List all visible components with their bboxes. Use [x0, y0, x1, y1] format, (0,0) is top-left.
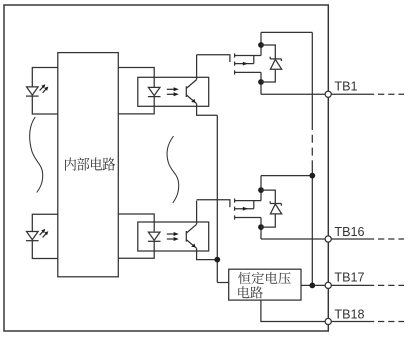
wire loop to input LED 2 — [32, 214, 58, 258]
wire PC2 emitter to common rail — [197, 248, 218, 259]
optocoupler PC2 phototransistor — [186, 224, 196, 248]
wire D2 anode to Q2 source — [261, 214, 275, 227]
terminal TB18 — [325, 318, 404, 324]
optocoupler PC2 box — [138, 222, 209, 251]
node Q2 source — [258, 224, 264, 230]
node Q1 drain — [258, 42, 264, 48]
node bus junction — [309, 173, 315, 179]
optocoupler PC2 light arrows — [167, 232, 179, 241]
wire Q2 source to TB16 — [261, 238, 325, 240]
wire PC1 emitter to common rail — [197, 104, 218, 116]
svg-text:TB1: TB1 — [334, 79, 357, 93]
wire PC1 collector to Q1 gate — [196, 55, 198, 80]
wire constant voltage circuit to TB17 — [301, 284, 325, 286]
LED 2 light emission arrows — [40, 229, 49, 238]
optocoupler PC1 LED — [148, 87, 161, 96]
wire Q2 top rail to bus — [261, 175, 312, 177]
wire PC2 collector to Q2 gate — [196, 201, 198, 225]
label 恒定电压 — [238, 272, 290, 284]
svg-text:TB16: TB16 — [334, 225, 364, 239]
wire loop to optocoupler PC2 LED — [118, 214, 154, 258]
wire D1 anode to Q1 source — [261, 70, 275, 82]
wire constant voltage circuit to TB18 — [261, 300, 325, 321]
wire top rail to bus — [261, 31, 312, 33]
wire Q1 source to TB1 — [261, 93, 325, 95]
wire Q2 drain — [260, 176, 262, 239]
MOSFET Q1 channel and body — [235, 53, 261, 74]
internal circuit block 内部电路 — [58, 53, 119, 277]
optocoupler PC2 LED — [148, 232, 161, 241]
optocoupler PC1 light arrows — [167, 87, 179, 96]
svg-text:TB17: TB17 — [334, 271, 364, 285]
LED 1 light emission arrows — [40, 84, 49, 93]
terminal TB1 — [325, 91, 404, 97]
wire Q1 drain to D1 cathode — [261, 45, 275, 59]
label 内部电路 — [65, 157, 115, 170]
terminal TB16 — [325, 236, 404, 242]
wire drain bus (solid bottom) — [311, 163, 313, 285]
optocoupler PC1 box — [138, 77, 209, 106]
zener diode D1 — [270, 57, 282, 70]
outer enclosure border — [4, 5, 328, 331]
node emitter rail junction — [214, 257, 220, 263]
wire loop to optocoupler PC1 LED — [118, 68, 154, 114]
wire common emitter rail — [216, 115, 218, 282]
input LED 1 — [26, 87, 39, 96]
node bus to TB17 junction — [309, 283, 315, 289]
wire Q1 drain — [260, 32, 262, 94]
MOSFET Q2 channel and body — [235, 199, 261, 220]
optocoupler PC1 phototransistor — [186, 80, 196, 104]
wire drain bus (solid top) — [311, 32, 313, 122]
wire loop to input LED 1 — [32, 68, 58, 115]
constant voltage circuit block 恒定电压电路 — [229, 269, 301, 300]
zener diode D2 — [270, 201, 282, 214]
node Q2 drain — [258, 187, 264, 193]
break mark (left) — [30, 117, 43, 193]
label 电路 — [238, 286, 263, 298]
terminal TB17 — [325, 282, 404, 288]
node Q1 source — [258, 79, 264, 85]
wire rail into constant voltage circuit — [217, 282, 228, 284]
MOSFET Q2 gate — [197, 200, 230, 207]
MOSFET Q1 gate — [197, 55, 230, 62]
svg-text:TB18: TB18 — [334, 307, 364, 321]
wire Q2 drain to D2 cathode — [261, 190, 275, 203]
wire drain bus (dashed omitted section) — [311, 122, 313, 163]
break mark (middle) — [167, 136, 179, 203]
input LED 2 — [26, 232, 39, 241]
